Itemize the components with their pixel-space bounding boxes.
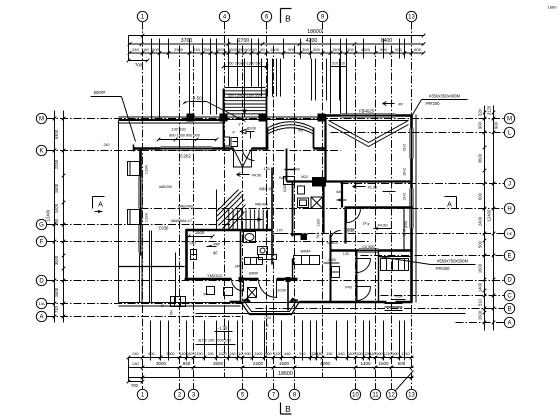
grid axis line K (left) [47,150,341,152]
window C202 in top wall [161,146,213,148]
svg-text:700: 700 [131,383,139,388]
svg-text:90: 90 [161,304,165,308]
svg-text:12400: 12400 [487,209,492,221]
svg-text:A: A [98,202,103,209]
window right wall mid [409,189,411,229]
svg-text:2700: 2700 [238,38,250,44]
grid bubble 5 bottom [237,389,247,399]
svg-text:150: 150 [207,352,213,356]
svg-text:130 130: 130 130 [171,127,186,132]
wall garage top (y=115) [323,114,341,117]
grid axis line A (left) [47,316,241,318]
grid axis line 12 [391,46,393,390]
svg-text:740: 740 [193,47,200,52]
svg-text:240: 240 [132,47,139,52]
arrow symbol living [237,173,250,177]
svg-text:1020: 1020 [283,185,287,193]
grid bubble H right [504,203,514,213]
section marker B top [280,9,282,24]
dim line top row3 (opening dims) [129,52,425,54]
bath2 sink [298,198,309,208]
svg-text:DH2: DH2 [403,168,407,176]
label bedroom arrow [207,246,217,248]
grid axis line 1/E (right) [281,233,505,235]
bath strip toilet [258,247,268,255]
grid axis line 4 [224,22,226,378]
svg-text:60: 60 [144,47,149,52]
svg-text:1400: 1400 [54,203,59,213]
grid bubble G left [36,219,46,229]
grid axis line 3 [193,46,195,390]
bay window top curved [268,128,314,134]
svg-text:B#B#: B#B# [249,272,258,276]
svg-text:550 150x9=1350 550: 550 150x9=1350 550 [228,94,261,98]
terrace line bottom second [119,305,241,307]
extension lines top dims [151,39,153,59]
svg-text:H: H [507,207,511,213]
svg-text:A: A [39,315,43,321]
svg-text:K: K [39,149,43,155]
svg-text:FB4625: FB4625 [359,109,375,114]
terrace thin vertical x175 [175,253,177,303]
svg-text:240: 240 [132,352,138,356]
svg-text:600##: 600## [94,90,106,95]
terrace line left vertical [118,121,120,303]
svg-text:J: J [508,182,511,188]
svg-text:C039: C039 [145,213,149,222]
svg-text:700: 700 [135,63,143,68]
svg-text:D: D [507,278,512,284]
grid axis line 9 [322,22,324,378]
wall utility left (x=356) [356,251,358,302]
grid axis line L (right) [331,132,505,134]
dim column right [484,106,486,331]
grid axis line J (right) [341,183,505,185]
grid axis line M (left) [47,118,505,120]
svg-text:1500: 1500 [216,47,226,52]
dim line top row1 (18600) [129,35,425,37]
svg-text:CH2: CH2 [403,144,407,152]
column hatched at J9 [313,178,326,187]
wall hall right (x=271.5) [271,168,273,265]
door arc bedroom1 [243,279,245,291]
svg-text:M22: M22 [301,175,308,179]
bath2 shower [311,197,323,209]
arrow symbol garage [353,185,366,189]
extension lines garage top [330,59,332,114]
staircase upper treads [225,87,266,89]
grid bubble A left [36,311,46,321]
grid bubble 1 top [137,11,147,21]
svg-text:4F: 4F [213,251,218,256]
svg-text:900: 900 [494,121,499,129]
svg-text:3(7)0 150 1500 150: 3(7)0 150 1500 150 [198,339,231,343]
grid axis line 2 [179,46,181,390]
svg-text:L20: L20 [343,252,349,256]
svg-text:1220: 1220 [273,352,281,356]
svg-text:900: 900 [347,47,354,52]
grid bubble 9 top [317,11,327,21]
column at (317,113) [318,114,326,122]
svg-text:1500: 1500 [195,230,205,235]
extension lines bottom dims [150,321,152,361]
svg-text:1520: 1520 [218,352,226,356]
grid bubble 7 bottom [268,389,278,399]
grid bubble E right [504,250,514,260]
window left wall upper [138,177,140,209]
door arc utility 1 [357,258,371,260]
svg-text:3700: 3700 [181,38,193,44]
svg-text:800 1000 800 900: 800 1000 800 900 [169,134,200,138]
svg-text:1320: 1320 [317,219,321,227]
svg-text:900: 900 [478,121,483,129]
dim line bottom row3 (18600) [129,377,414,379]
wall bedroom2 top (y=207) [345,206,413,208]
svg-text:6400: 6400 [381,38,393,44]
svg-text:3600: 3600 [478,153,483,163]
svg-text:3000: 3000 [54,255,59,265]
svg-text:3000: 3000 [156,361,167,366]
terrace thin vertical x149 [149,231,151,303]
svg-text:CH2: CH2 [403,229,407,237]
svg-text:90: 90 [252,47,257,52]
svg-text:1/A: 1/A [38,301,44,306]
grid axis line A (right) [456,322,505,324]
wall bay left (x=267) [267,128,269,149]
svg-text:310: 310 [236,352,242,356]
svg-text:900: 900 [392,352,398,356]
wall bedroom1 top (y=229.5) [186,229,273,232]
svg-text:1500: 1500 [332,47,342,52]
svg-text:2200: 2200 [253,361,264,366]
grid axis line 11 [375,46,377,390]
grid bubble 1 bottom [137,389,147,399]
wall garage bottom (y=181) [287,180,413,182]
svg-text:M0820: M0820 [327,241,338,245]
window box left-bottom [171,297,186,307]
svg-text:A: A [507,321,511,327]
svg-text:#4.00: #4.00 [377,223,388,228]
arrow symbol stair top [383,102,395,106]
door arc kitchen top [331,231,341,241]
svg-text:C039: C039 [145,165,149,174]
grid axis line 13 [411,22,413,390]
svg-text:3@0.10: 3@0.10 [259,187,272,191]
svg-text:4200: 4200 [320,361,331,366]
svg-text:C04: C04 [264,316,271,320]
svg-text:###200: ###200 [436,266,451,271]
dim line top row2 (bay dims) [129,43,425,45]
wall lower bay left (x=240) [240,279,242,302]
svg-text:150: 150 [229,352,235,356]
svg-text:1: 1 [266,324,268,328]
stove rects [332,267,340,278]
grid axis line 10 [355,46,357,390]
leader near bubble 12 [396,371,414,391]
grid bubble 3 bottom [188,389,198,399]
grid bubble B right [504,303,514,313]
grid bubble 12 bottom [386,389,396,399]
svg-text:510 810: 510 810 [332,62,345,66]
bath1 arrow label [241,129,247,133]
extension line right eave [415,115,417,303]
svg-text:11: 11 [372,393,379,399]
svg-text:###200: ###200 [426,101,441,106]
svg-text:4200: 4200 [306,38,318,44]
door arc bedroom2 [346,209,348,223]
svg-text:##E400: ##E400 [255,203,268,207]
svg-text:E: E [507,254,511,260]
svg-text:18600: 18600 [278,371,293,377]
grid axis line E (right) [361,255,505,257]
svg-text:940: 940 [183,361,191,366]
grid bubble M right [504,113,514,123]
wall closet back (y=256) [379,256,412,258]
svg-text:18600: 18600 [307,29,322,35]
grid axis line D (left) [47,280,505,282]
svg-text:90: 90 [260,47,265,52]
svg-text:#4#: #4# [213,243,220,247]
svg-text:910: 910 [299,352,305,356]
svg-text:2400: 2400 [254,352,262,356]
wall bedroom2 inner right (x=403.5) [403,208,405,251]
svg-text:300: 300 [302,47,309,52]
dim line bottom row1 (opening dims) [129,357,414,359]
svg-text:1210: 1210 [383,352,391,356]
svg-text:@0.60: @0.60 [247,127,257,131]
svg-text:-1.35: -1.35 [218,326,228,331]
wall right outer (x=411) [410,115,413,129]
grid axis line G (left) [47,224,236,226]
svg-text:4600: 4600 [361,47,371,52]
column at (219,113) [220,114,228,122]
column at (300,233) [301,234,307,240]
wall bedroom1 right (x=240) [240,230,242,279]
wall kitchen left (x=292) [292,259,294,279]
svg-text:YM2322: YM2322 [207,273,223,278]
svg-text:M: M [39,117,44,123]
wall utility right (x=378) [378,251,380,302]
window bedroom2 bottom [359,248,379,250]
niche box hall 2 [298,186,305,194]
bay window bottom octagonal [241,302,300,315]
svg-text:#6: #6 [298,128,303,133]
grid axis line 1 [142,22,144,390]
svg-text:240: 240 [132,362,138,366]
svg-text:#350x350x400M: #350x350x400M [429,94,460,99]
svg-text:170: 170 [276,229,282,233]
wall top-left outer (y=148) [134,147,161,150]
corridor strip line [383,191,396,193]
svg-text:1500: 1500 [279,361,290,366]
bath1 fixtures (entry WC) [224,137,230,146]
svg-text:12: 12 [388,393,395,399]
door arc lower hall [259,280,277,298]
section marker A left [93,196,105,198]
wall bath right vertical (x=292) [292,182,294,237]
grid bubble 11 bottom [370,389,380,399]
joint node 2 [286,278,290,282]
niche box hall 1 [284,177,295,185]
svg-text:760: 760 [170,310,174,316]
bath strip tub [244,232,256,243]
joint node 1 [239,278,243,282]
window in garage top wall [341,113,396,115]
grid axis line C (right) [381,295,505,297]
svg-text:150: 150 [326,352,332,356]
staircase main (living room) [216,190,218,230]
terrace eave line top-left [119,120,224,122]
svg-text:550 150x9=1350 550: 550 150x9=1350 550 [228,62,262,66]
svg-text:6300: 6300 [54,129,59,139]
grid axis line 1/A (left) [47,303,246,305]
svg-text:1600: 1600 [478,263,483,273]
svg-text:760: 760 [203,47,210,52]
svg-text:D: D [39,279,44,285]
cabinet under wall [259,255,277,260]
svg-text:##B200: ##B200 [159,185,172,189]
grid axis line 5 [242,46,244,390]
svg-text:440: 440 [369,352,375,356]
wall x=323 vertical [322,182,324,234]
svg-text:P40: P40 [345,286,352,290]
svg-text:1660: 1660 [548,5,558,10]
svg-text:240: 240 [189,242,195,246]
section marker B bottom [280,403,282,415]
svg-text:#4.50: #4.50 [252,174,262,178]
svg-text:1/E: 1/E [506,231,512,236]
svg-text:300: 300 [54,218,59,226]
grid axis line F (left) [47,241,371,243]
wall bottom outer (y=301.5) [230,301,241,304]
svg-text:B: B [285,404,291,414]
garage gable lines [329,121,409,143]
wall bay right (x=313) [313,128,315,149]
svg-text:(150): (150) [404,221,408,228]
svg-text:B: B [507,307,511,313]
svg-text:-0.60: -0.60 [394,295,402,299]
grid bubble 8 bottom [289,389,299,399]
svg-text:1030: 1030 [277,288,287,293]
grid bubble 1/A left [36,298,46,308]
grid bubble 1/E right [504,228,514,238]
svg-text:12400: 12400 [46,209,51,221]
svg-text:F: F [40,240,44,246]
svg-text:24#: 24# [235,265,241,269]
svg-text:180: 180 [316,352,322,356]
svg-text:440: 440 [284,352,290,356]
grid bubble 2 bottom [174,389,184,399]
svg-text:500: 500 [395,47,402,52]
svg-text:600: 600 [414,47,421,52]
grid axis line H (right) [141,208,505,210]
svg-text:900: 900 [265,352,271,356]
svg-text:#8#8A6a-17: #8#8A6a-17 [171,218,192,223]
svg-text:2900: 2900 [166,352,174,356]
column at (258,113) [259,114,267,122]
svg-text:13: 13 [408,393,415,399]
svg-text:CH2: CH2 [403,193,407,201]
extension lines stair top [228,59,230,87]
svg-text:1500: 1500 [54,287,59,297]
grid axis line 7 [273,46,275,390]
svg-text:2400: 2400 [478,216,483,226]
svg-text:C036: C036 [158,226,169,231]
wall x=330 lower [330,235,332,302]
svg-text:1600: 1600 [478,310,483,320]
svg-text:G: G [39,223,44,229]
svg-text:10: 10 [352,393,359,399]
window box left wall 2 [128,210,140,225]
svg-text:#1.50: #1.50 [368,186,378,190]
wall bedroom1 left (x=186) [185,230,188,279]
svg-text:900: 900 [288,47,295,52]
svg-text:133: 133 [263,167,269,171]
svg-text:600: 600 [398,361,406,366]
svg-text:710: 710 [54,305,59,313]
wall left outer (x=140) [139,148,142,177]
grid bubble 13 top [406,11,416,21]
dim line bottom row2 (room dims) [129,367,414,369]
grid bubble J right [504,178,514,188]
column at (186,113) [187,114,195,122]
section marker A right [445,196,457,198]
svg-text:3120: 3120 [487,105,492,115]
svg-text:2400: 2400 [347,352,355,356]
grid bubble A right [504,317,514,327]
wall stair1 left (x=223) [223,89,225,149]
leader to door [207,102,246,122]
wall garage left (x=325) [324,116,326,182]
svg-text:1400: 1400 [360,361,371,366]
svg-text:240: 240 [104,143,110,147]
svg-text:2900: 2900 [174,47,184,52]
svg-text:500: 500 [313,47,320,52]
svg-text:940: 940 [186,352,192,356]
svg-text:K#B1: K#B1 [279,176,288,180]
svg-text:320: 320 [478,108,483,116]
dim fragment bottom-left 700 [129,381,143,383]
svg-text:910: 910 [316,233,320,239]
terrace retaining line left [119,266,185,268]
porch steps bottom-right [385,303,403,305]
svg-text:C202: C202 [180,154,191,159]
svg-text:3500: 3500 [228,47,238,52]
wall bedroom2 bottom (y=250) [331,249,359,252]
window right wall upper [409,129,411,159]
grid axis line 8 [294,46,296,390]
svg-text:B: B [285,14,291,24]
wall bedroom1 bottom (y=278.5) [185,278,232,281]
wall bedroom2 left (x=345) [344,208,346,244]
grid bubble 4 top [219,11,229,21]
svg-text:600: 600 [478,192,483,200]
svg-text:500: 500 [478,240,483,248]
svg-text:3600: 3600 [213,361,224,366]
dim fragment top-left 700 [129,60,148,62]
svg-text:40##: 40## [336,190,344,194]
wall fragment y=169 [285,169,296,171]
svg-text:P40: P40 [293,168,300,172]
svg-text:-0.60: -0.60 [327,258,336,262]
beam line y=117 [119,116,323,118]
wall stair1 right (x=266) [266,89,268,149]
svg-text:13: 13 [408,15,415,21]
door arc bath upper [243,149,255,161]
wall lower mid (x=287.5) [287,279,289,311]
entry double door [234,149,243,168]
svg-text:600: 600 [148,352,154,356]
